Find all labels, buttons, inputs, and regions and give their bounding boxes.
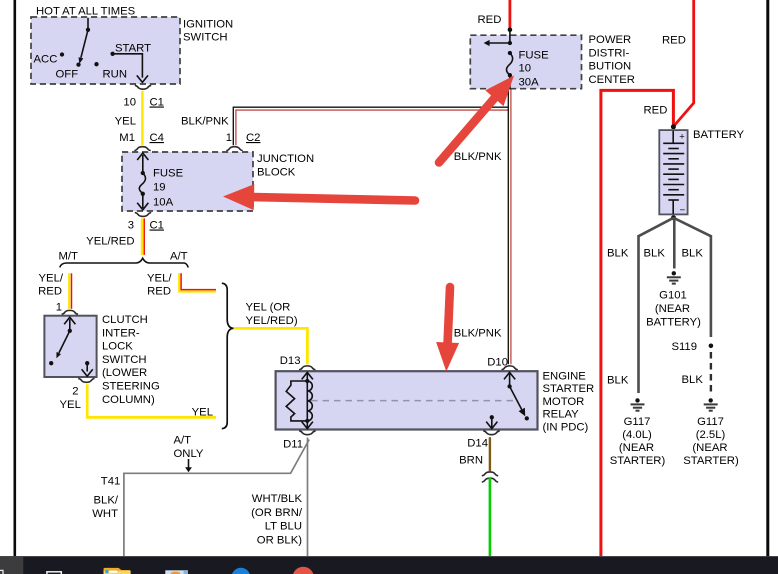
svg-text:(2.5L): (2.5L) xyxy=(696,429,726,441)
fuse F10 element xyxy=(484,30,513,90)
svg-text:STARTER): STARTER) xyxy=(683,455,739,467)
label FUSE 19 10A xyxy=(153,168,184,209)
wire BLK/PNK junction block C2 to fuse feed xyxy=(233,107,508,145)
label YEL clutch output xyxy=(60,399,81,411)
connector C1 pin 10 xyxy=(123,85,164,108)
svg-text:C1: C1 xyxy=(150,220,164,232)
taskbar red circle icon xyxy=(293,567,314,574)
right window border xyxy=(766,0,769,556)
label BLK left xyxy=(607,248,629,260)
svg-text:WHT/BLK: WHT/BLK xyxy=(252,493,303,505)
svg-text:RED: RED xyxy=(662,35,686,47)
label CLUTCH INTERLOCK SWITCH (LOWER STEERING COLUMN) xyxy=(102,314,160,406)
inline connector BRN-GRN xyxy=(482,472,498,482)
ignition switch box xyxy=(31,17,180,84)
svg-text:1: 1 xyxy=(226,132,232,144)
connector C1 pin 3 xyxy=(128,213,164,232)
svg-text:START: START xyxy=(115,43,151,55)
svg-text:C1: C1 xyxy=(150,97,164,109)
ignition contact RUN xyxy=(94,62,127,80)
svg-text:10: 10 xyxy=(123,97,136,109)
label ENGINE STARTER MOTOR RELAY (IN PDC) xyxy=(543,371,595,434)
clutch switch arm and contact xyxy=(49,317,75,365)
wire YEL/RED M/T branch xyxy=(38,273,71,309)
svg-text:OFF: OFF xyxy=(56,69,79,81)
wire GRN to starter xyxy=(489,478,492,556)
taskbar start icon xyxy=(0,570,61,574)
battery box xyxy=(659,130,687,214)
connector clutch switch pin 2 xyxy=(72,378,94,397)
svg-text:2: 2 xyxy=(72,386,78,398)
svg-text:YEL/: YEL/ xyxy=(39,273,64,285)
connector D10 xyxy=(487,357,518,370)
label T41 xyxy=(101,476,120,488)
annotation red arrow 3 (starter relay) xyxy=(436,287,459,372)
label BLK right xyxy=(682,248,704,260)
svg-text:YEL/: YEL/ xyxy=(147,273,172,285)
brace combining M/T and A/T paths xyxy=(222,283,234,428)
label BLK middle xyxy=(644,248,666,260)
svg-text:COLUMN): COLUMN) xyxy=(102,394,155,406)
label RED battery feed xyxy=(644,105,668,117)
svg-text:C4: C4 xyxy=(150,132,164,144)
connector D14 xyxy=(467,431,499,450)
label YEL (OR YEL/RED) xyxy=(246,302,298,327)
svg-text:30A: 30A xyxy=(519,76,540,88)
label BLK/PNK lower xyxy=(454,328,502,340)
annotation red arrow 2 (fuse 10) xyxy=(439,76,514,163)
relay coil xyxy=(302,372,313,429)
svg-text:A/T: A/T xyxy=(170,251,188,263)
svg-text:HOT AT ALL TIMES: HOT AT ALL TIMES xyxy=(36,5,136,17)
node battery negative xyxy=(671,215,676,220)
wire BRN D14 down xyxy=(489,437,491,471)
left window border xyxy=(14,0,17,556)
svg-text:BUTION: BUTION xyxy=(589,61,632,73)
svg-text:YEL: YEL xyxy=(192,407,213,419)
svg-text:ENGINE: ENGINE xyxy=(543,371,587,383)
svg-text:T41: T41 xyxy=(101,476,120,488)
svg-text:+: + xyxy=(679,131,685,142)
wire RED generator to battery xyxy=(673,0,693,127)
svg-text:YEL/RED: YEL/RED xyxy=(86,236,134,248)
relay coil parallel resistor xyxy=(286,381,307,421)
svg-text:CLUTCH: CLUTCH xyxy=(102,314,148,326)
ignition contact OFF xyxy=(56,62,81,80)
ignition switch wiper arm xyxy=(79,18,91,64)
svg-text:IGNITION: IGNITION xyxy=(183,19,233,31)
taskbar folder icon xyxy=(104,568,131,574)
ignition contact START xyxy=(110,43,151,56)
clutch switch pin 2 contact xyxy=(82,361,93,376)
annotation red arrow 1 (junction block) xyxy=(223,184,415,210)
svg-text:G117: G117 xyxy=(624,416,651,428)
svg-text:10: 10 xyxy=(519,62,532,74)
label M/T xyxy=(59,251,79,263)
label RED feed to fuse 10 xyxy=(478,14,502,26)
svg-text:A/T: A/T xyxy=(174,435,192,447)
label BATTERY xyxy=(693,129,745,141)
label YEL at brace xyxy=(192,407,213,419)
label RED top right xyxy=(662,35,686,47)
wire BLK battery to G101 xyxy=(673,218,676,269)
svg-text:(IN PDC): (IN PDC) xyxy=(543,422,589,434)
ground G117 right xyxy=(704,398,718,411)
svg-text:M1: M1 xyxy=(119,132,135,144)
svg-text:JUNCTION: JUNCTION xyxy=(257,153,314,165)
svg-text:FUSE: FUSE xyxy=(519,49,550,61)
connector C4 pin M1 xyxy=(119,132,164,151)
svg-text:SWITCH: SWITCH xyxy=(102,354,147,366)
label IGNITION SWITCH xyxy=(183,19,233,44)
node split bracket M/T-A/T xyxy=(60,258,189,267)
svg-text:RED: RED xyxy=(644,105,668,117)
svg-text:BLK/: BLK/ xyxy=(94,495,119,507)
fuse F19 element xyxy=(137,153,148,210)
svg-text:19: 19 xyxy=(153,182,166,194)
wire BLK/WHT D11 A/T branch xyxy=(124,440,309,557)
relay internal dashed separator xyxy=(311,400,518,402)
relay switch output contact xyxy=(486,415,497,429)
svg-text:S119: S119 xyxy=(671,341,697,353)
svg-text:D14: D14 xyxy=(467,438,488,450)
taskbar photos icon xyxy=(165,570,188,574)
svg-text:YEL (OR: YEL (OR xyxy=(246,302,291,314)
connector clutch switch pin 1 xyxy=(56,302,78,315)
svg-text:BATTERY: BATTERY xyxy=(693,129,745,141)
svg-text:G117: G117 xyxy=(697,416,724,428)
engine starter motor relay box xyxy=(276,371,538,429)
wire BLK battery to S119 xyxy=(674,218,711,337)
svg-text:LT BLU: LT BLU xyxy=(265,521,302,533)
svg-text:BLK: BLK xyxy=(644,248,666,260)
svg-text:C2: C2 xyxy=(246,132,260,144)
annotation black arrow A/T ONLY xyxy=(185,459,192,472)
wire YEL brace to relay D13 xyxy=(234,328,308,364)
svg-text:RED: RED xyxy=(147,286,171,298)
svg-text:STARTER): STARTER) xyxy=(610,455,666,467)
label FUSE 10 30A xyxy=(519,49,550,88)
wire RED battery to fuse 10 xyxy=(508,0,513,32)
svg-text:CENTER: CENTER xyxy=(589,74,635,86)
label BLK/WHT xyxy=(92,495,119,520)
connector D11 xyxy=(283,431,315,451)
svg-text:(4.0L): (4.0L) xyxy=(622,429,652,441)
wire BLK/PNK fuse 10 to relay D10 xyxy=(508,89,511,364)
svg-text:BLK/PNK: BLK/PNK xyxy=(454,328,502,340)
label HOT AT ALL TIMES xyxy=(36,5,136,17)
taskbar xyxy=(0,556,778,574)
wire YEL/RED A/T branch xyxy=(147,273,216,298)
svg-text:YEL: YEL xyxy=(115,116,136,128)
label BLK lower left xyxy=(607,375,629,387)
svg-text:M/T: M/T xyxy=(59,251,79,263)
wire YEL ignition to junction block xyxy=(115,91,143,145)
svg-text:3: 3 xyxy=(128,220,134,232)
svg-text:STEERING: STEERING xyxy=(102,381,160,393)
ground G117 left xyxy=(631,398,645,411)
svg-text:(NEAR: (NEAR xyxy=(655,303,690,315)
clutch interlock switch box xyxy=(44,316,96,377)
wire RED battery positive feed down xyxy=(601,90,674,556)
svg-text:BATTERY): BATTERY) xyxy=(646,316,701,328)
relay switch arm xyxy=(504,372,529,420)
wire WHT/BLK D11 down xyxy=(307,438,309,557)
wire YEL clutch switch to brace xyxy=(87,384,216,417)
wire BLK dashed S119 to G117 2.5L xyxy=(710,352,712,394)
svg-text:LOCK: LOCK xyxy=(102,341,133,353)
svg-text:BLK/PNK: BLK/PNK xyxy=(454,151,502,163)
svg-text:ACC: ACC xyxy=(34,54,58,66)
svg-text:ONLY: ONLY xyxy=(174,448,204,460)
svg-text:BLK: BLK xyxy=(607,248,629,260)
svg-text:WHT: WHT xyxy=(92,508,118,520)
svg-text:FUSE: FUSE xyxy=(153,168,184,180)
svg-text:INTER-: INTER- xyxy=(102,327,140,339)
svg-text:(NEAR: (NEAR xyxy=(619,442,654,454)
label POWER DISTRIBUTION CENTER xyxy=(589,34,635,86)
label BLK/PNK C2 wire xyxy=(181,116,229,128)
svg-text:10A: 10A xyxy=(153,196,174,208)
svg-text:RELAY: RELAY xyxy=(543,409,580,421)
svg-text:BLK: BLK xyxy=(682,374,704,386)
svg-text:(NEAR: (NEAR xyxy=(692,442,727,454)
wire YEL/RED junction block to M/T-A/T split xyxy=(86,218,144,255)
power distribution center box xyxy=(470,35,581,88)
label A/T ONLY xyxy=(174,435,204,460)
svg-text:RED: RED xyxy=(38,286,62,298)
svg-text:BRN: BRN xyxy=(459,455,483,467)
label A/T xyxy=(170,251,188,263)
wire START to pin 10 xyxy=(114,54,148,83)
node battery positive junction xyxy=(671,124,676,129)
label WHT/BLK (OR BRN/ LT BLU OR BLK) xyxy=(251,493,303,546)
svg-text:RED: RED xyxy=(478,14,502,26)
svg-text:YEL/RED): YEL/RED) xyxy=(246,315,298,327)
label G101 (NEAR BATTERY) xyxy=(646,290,701,329)
svg-text:OR BLK): OR BLK) xyxy=(257,534,302,546)
label BLK lower right xyxy=(682,374,704,386)
svg-text:BLK: BLK xyxy=(607,375,629,387)
label G117 (2.5L) (NEAR STARTER) xyxy=(683,416,739,467)
svg-text:RUN: RUN xyxy=(103,69,127,81)
svg-text:BLK: BLK xyxy=(682,248,704,260)
svg-text:−: − xyxy=(680,205,686,216)
svg-text:1: 1 xyxy=(56,302,62,314)
battery cell plates xyxy=(663,131,685,216)
svg-text:BLOCK: BLOCK xyxy=(257,166,296,178)
node splice S119 xyxy=(671,341,713,353)
ignition contact ACC xyxy=(34,52,65,65)
svg-text:YEL: YEL xyxy=(60,399,81,411)
label G117 (4.0L) (NEAR STARTER) xyxy=(610,416,666,467)
svg-text:MOTOR: MOTOR xyxy=(543,396,585,408)
svg-text:POWER: POWER xyxy=(589,34,632,46)
label BLK/PNK upper xyxy=(454,151,502,163)
wire BLK battery to G117 4.0L xyxy=(639,218,674,393)
svg-text:BLK/PNK: BLK/PNK xyxy=(181,116,229,128)
svg-text:(LOWER: (LOWER xyxy=(102,367,147,379)
ground G101 xyxy=(667,271,681,284)
connector C2 pin 1 xyxy=(226,132,261,151)
svg-text:D11: D11 xyxy=(283,439,303,451)
svg-text:SWITCH: SWITCH xyxy=(183,32,228,44)
connector D13 xyxy=(280,355,316,370)
taskbar blue circle icon xyxy=(231,568,250,574)
junction block box xyxy=(122,152,253,211)
svg-text:(OR BRN/: (OR BRN/ xyxy=(251,507,303,519)
svg-text:D13: D13 xyxy=(280,355,301,367)
svg-text:STARTER: STARTER xyxy=(543,383,595,395)
svg-text:G101: G101 xyxy=(659,290,687,302)
label JUNCTION BLOCK xyxy=(257,153,314,178)
svg-text:DISTRI-: DISTRI- xyxy=(589,47,630,59)
label BRN xyxy=(459,455,483,467)
